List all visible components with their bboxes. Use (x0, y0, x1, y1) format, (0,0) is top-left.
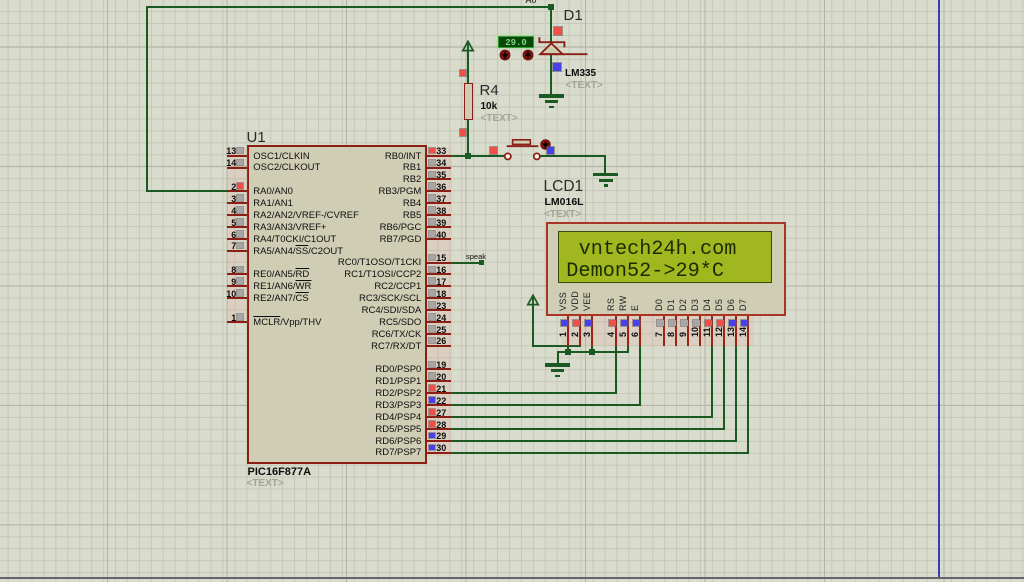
resistor R4 body (464, 83, 473, 120)
label LCD1 TEXT (544, 209, 581, 220)
wire RS to U1 pin 21 (451, 392, 618, 394)
node speak label (466, 252, 486, 261)
U1 pin 28 (RD5/PSP5) (427, 428, 451, 430)
U1 pin 16 (RC1/T1OSI/CCP2) (427, 273, 451, 275)
LCD1 pin 6 (E) (630, 304, 640, 310)
LCD text line 1 (579, 238, 737, 261)
push button contacts and actuator (500, 135, 558, 163)
wire down to ground (button) (604, 156, 606, 173)
wire E to U1 pin 22 (451, 404, 642, 406)
U1 pin 38 (RB5) (427, 214, 451, 216)
U1 pin 5 (RA3) (227, 226, 248, 228)
U1 pin 25 (RC6/TX/CK) (427, 333, 451, 335)
wire D7 to U1 pin 30 (451, 452, 750, 454)
pin state square D1 cathode (554, 27, 562, 35)
U1 pin 20 (RD1/PSP1) (427, 380, 451, 382)
node A0 label (526, 0, 537, 5)
U1 pin 40 (RB7/PGD) (427, 238, 451, 240)
U1 pin 36 (RB3/PGM) (427, 190, 451, 192)
U1 pin 23 (RC4/SDI/SDA) (427, 309, 451, 311)
U1 pin 10 (RE2) (227, 297, 248, 299)
LCD1 pin 13 (D6) (726, 298, 736, 310)
U1 pin 35 (RB2) (427, 178, 451, 180)
LCD pin column tint (562, 316, 754, 346)
U1 pin 4 (RA2) (227, 214, 248, 216)
wire speak stub (451, 262, 481, 264)
LCD1 pin 10 (D3) (690, 298, 700, 310)
junction at A0 (548, 4, 554, 10)
node speak terminal (479, 260, 484, 265)
wire RS vertical (615, 344, 617, 395)
wire RA0 vertical left segment (146, 6, 148, 193)
LCD1 pin 14 (D7) (738, 298, 748, 310)
LCD1 pin 5 (RW) (618, 295, 628, 311)
U1 pin 9 (RE1) (227, 285, 248, 287)
label LM016L (545, 196, 584, 208)
temperature sensor D1 LM335 symbol (536, 33, 592, 60)
pin state square R4 top (460, 70, 466, 76)
wire VDD pin drop (579, 344, 581, 347)
U1 pin 14 (OSC2) (227, 167, 248, 169)
junction VSS (565, 349, 571, 355)
wire D5 vertical (723, 344, 725, 430)
U1 pin 27 (RD4/PSP4) (427, 416, 451, 418)
pin state square D1 anode (553, 63, 561, 71)
U1 pin 19 (RD0/PSP0) (427, 368, 451, 370)
ground (button) (593, 173, 618, 176)
LCD1 pin 4 (RS) (606, 297, 616, 310)
pin state square button right (547, 147, 553, 153)
label U1 (247, 129, 266, 146)
wire D5 to U1 pin 28 (451, 428, 726, 430)
label U1 TEXT (247, 478, 284, 489)
label PIC16F877A (248, 466, 312, 478)
wire VEE drop (591, 344, 593, 353)
pin state square button left (490, 147, 496, 153)
wire RW drop (627, 344, 629, 353)
wire power arrow to R4 top (467, 50, 469, 83)
wire D7 vertical (747, 344, 749, 454)
wire U1 pin 33 row to button (451, 155, 505, 157)
U1 pin 24 (RC5/SDO) (427, 321, 451, 323)
label R4 value 10k (481, 101, 498, 112)
microcontroller U1 PIC16F877A body (247, 145, 427, 464)
ground (LCD) (545, 363, 570, 366)
U1 pin 1 (MCLR) (227, 321, 248, 323)
LCD1 pin 7 (D0) (654, 298, 664, 310)
U1 pin 18 (RC3/SCK/SCL) (427, 297, 451, 299)
U1 pin 33 (RB0/INT) (427, 155, 451, 157)
wire D1 anode to ground (550, 54, 552, 95)
wire LCD ground rail (557, 351, 630, 353)
label R4 (480, 82, 499, 99)
wire D4 vertical (711, 344, 713, 418)
U1 pin 6 (RA4) (227, 238, 248, 240)
pin column tint left (227, 147, 248, 324)
wire D6 to U1 pin 29 (451, 440, 738, 442)
label LM335 (565, 68, 596, 79)
U1 pin 22 (RD3/PSP3) (427, 404, 451, 406)
U1 pin 13 (OSC1) (227, 155, 248, 157)
LCD LCD1 LM016L body (546, 222, 786, 316)
LCD1 pin 11 (D4) (702, 298, 712, 310)
wire D4 to U1 pin 27 (451, 416, 714, 418)
U1 pin 39 (RB6/PGC) (427, 226, 451, 228)
wire A0 down to D1 cathode (550, 7, 552, 42)
U1 pin 30 (RD7/PSP7) (427, 452, 451, 454)
power +5V arrow (LCD) (526, 294, 540, 307)
wire ground rail drop (557, 352, 559, 364)
wire A0 top horizontal (146, 6, 552, 8)
junction R4/RB0 (465, 153, 471, 159)
LCD1 pin 1 (VSS) (558, 291, 568, 310)
U1 pin 37 (RB4) (427, 202, 451, 204)
wire RA0 horizontal to U1 pin 2 (146, 190, 229, 192)
U1 pin 17 (RC2/CCP1) (427, 285, 451, 287)
pin state square R4 bottom (460, 129, 466, 135)
label LCD1 (544, 178, 584, 196)
U1 pin 7 (RA5) (227, 250, 248, 252)
LCD screen (558, 231, 772, 283)
wire button to ground corner (540, 155, 606, 157)
LCD text line 2 (566, 260, 724, 283)
LCD1 pin 3 (VEE) (582, 291, 592, 310)
ground (D1) (539, 94, 564, 97)
U1 pin 2 (RA0) (227, 190, 248, 192)
U1 pin 8 (RE0) (227, 273, 248, 275)
U1 pin 34 (RB1) (427, 167, 451, 169)
junction VEE (589, 349, 595, 355)
LCD1 pin 2 (VDD) (570, 290, 580, 310)
D1 actuator up button (522, 49, 534, 61)
U1 pin 3 (RA1) (227, 202, 248, 204)
label R4 TEXT (481, 113, 518, 124)
wire power to LCD VDD (532, 345, 581, 347)
U1 pin 29 (RD6/PSP6) (427, 440, 451, 442)
LCD1 pin 12 (D5) (714, 298, 724, 310)
push button toggle knob (540, 139, 551, 150)
U1 pin 26 (RC7/RX/DT) (427, 345, 451, 347)
D1 actuator down button (499, 49, 511, 61)
wire D6 vertical (735, 344, 737, 442)
wire VSS drop (567, 344, 569, 353)
LCD1 pin 9 (D2) (678, 298, 688, 310)
power +5V arrow (R4) (461, 40, 475, 53)
label D1 (564, 7, 583, 24)
U1 pin 15 (RC0/T1OSO/T1CKI) (427, 262, 451, 264)
LCD1 pin 8 (D1) (666, 298, 676, 310)
wire E vertical (639, 344, 641, 407)
label D1 TEXT (566, 80, 603, 91)
pin column tint right (427, 147, 452, 456)
D1 actuator display 29.0 (498, 36, 535, 48)
U1 pin 21 (RD2/PSP2) (427, 392, 451, 394)
wire R4 bottom to node (467, 120, 469, 157)
wire LCD power arrow stem (532, 305, 534, 347)
